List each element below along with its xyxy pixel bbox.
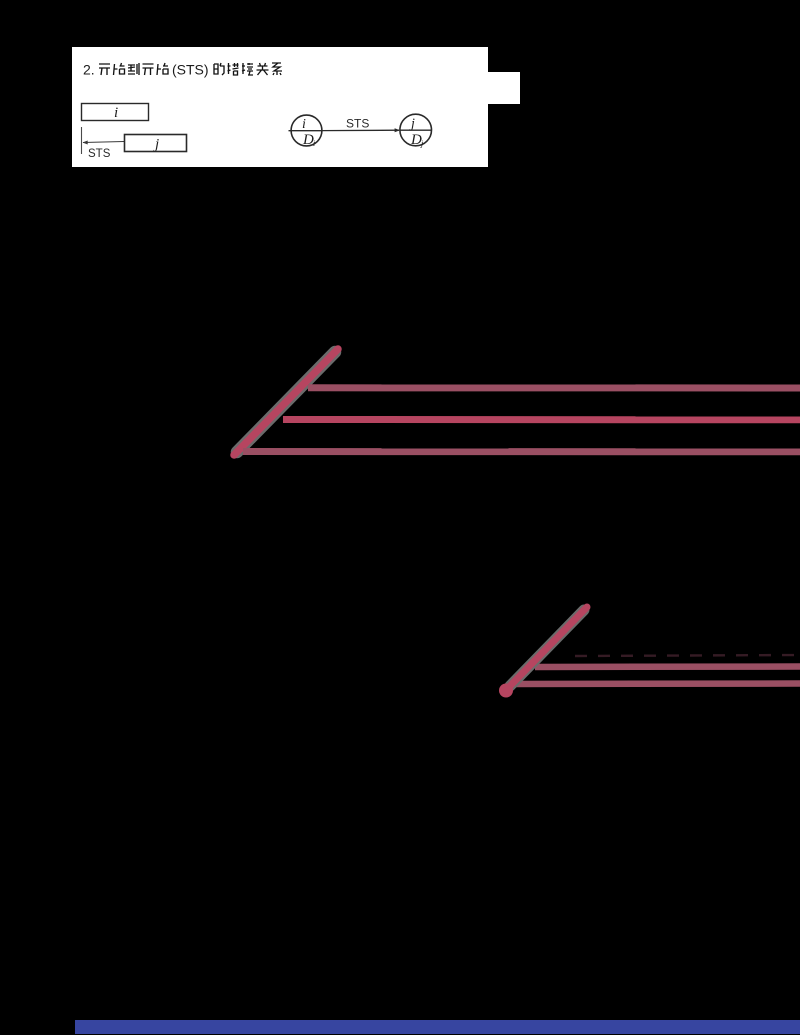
connector with STS: [322, 129, 399, 131]
lower faint dashed line: [575, 655, 800, 656]
lower diagonal with fringe and end dot: [510, 610, 584, 686]
upper thick diagonal with gray fringe: [237, 352, 335, 452]
left circle: [291, 115, 322, 146]
blue progress bar: [75, 1020, 800, 1034]
lower two horizontal lines: [535, 663, 800, 670]
系: [272, 63, 282, 75]
rect j: [125, 135, 187, 152]
arrow line to rect j: [83, 142, 124, 143]
right mini-diagram: two node circles: [280, 105, 450, 160]
开: [99, 64, 110, 75]
接: [242, 63, 253, 75]
title row (CJK drawn as pseudo-glyph SVG): [83, 61, 483, 78]
搭: [228, 63, 239, 75]
始: [157, 63, 168, 75]
rect i: [82, 104, 149, 121]
关: [257, 63, 269, 75]
开: [143, 64, 154, 75]
three horizontal lines: [308, 384, 800, 391]
到: [128, 63, 139, 75]
left mini-diagram: bar chart style: [72, 95, 212, 167]
的: [214, 63, 224, 75]
white tab: [488, 72, 520, 104]
vertical tick: [81, 127, 83, 154]
right circle: [400, 114, 432, 146]
始: [114, 63, 125, 75]
white slide box: [72, 47, 488, 167]
